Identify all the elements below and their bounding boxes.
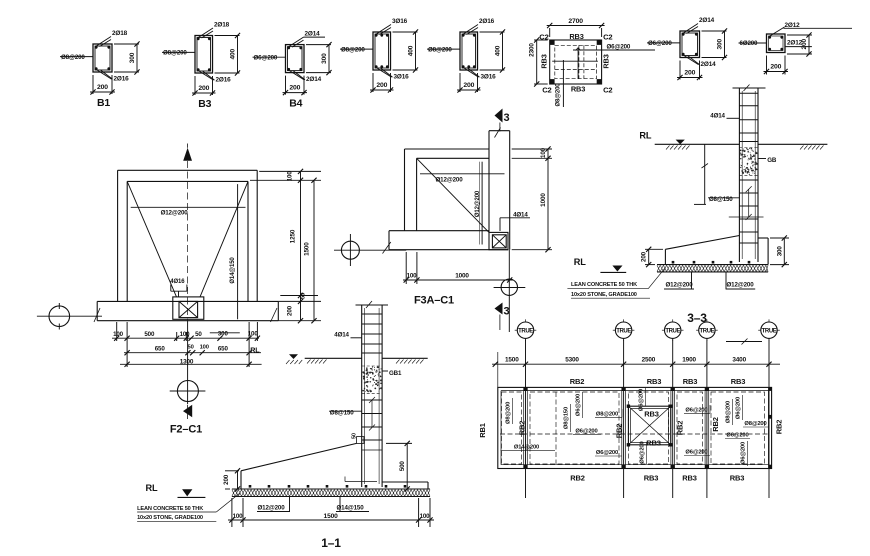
column label C2 bottom-left: [542, 85, 551, 94]
svg-text:Ø8@200: Ø8@200: [61, 54, 85, 61]
svg-text:Ø12@200: Ø12@200: [726, 282, 754, 289]
svg-text:GB: GB: [767, 157, 777, 164]
column strip F3A-C1: [489, 131, 510, 250]
ground hatch left 1-1: [286, 360, 302, 364]
svg-text:300: 300: [717, 38, 724, 49]
slab dashed lower line in C2 plan: [555, 69, 597, 71]
rebar label &#216;12@200 below 1-1 base: [257, 497, 290, 512]
svg-text:2Ø14: 2Ø14: [305, 31, 321, 38]
ground line left 1-1: [305, 357, 362, 359]
grid extension left edge: [497, 352, 499, 387]
svg-text:1900: 1900: [682, 357, 696, 364]
column box F3A-C1: [489, 232, 508, 249]
svg-text:300: 300: [776, 246, 783, 257]
svg-text:Ø12@200: Ø12@200: [257, 505, 285, 512]
svg-text:300: 300: [321, 53, 328, 64]
svg-text:RB2: RB2: [517, 421, 526, 436]
slab label &#216;6@200 bay E-F lower rotated: [741, 441, 748, 466]
beam section B4 outline: [286, 45, 305, 73]
beam label RB3 bottom: [571, 85, 585, 94]
stirrup label &#216;6@200 of B4: [253, 54, 286, 61]
rebar label &#216;8@200 below C2 plan: [556, 60, 564, 107]
slab rebar dashed rect in C2 plan: [555, 45, 597, 78]
svg-text:Ø8@200: Ø8@200: [506, 402, 512, 424]
svg-text:RB3: RB3: [601, 54, 610, 68]
stirrup spacing arrow line 1-1: [369, 397, 375, 431]
beam label RB2 right edge rotated: [775, 420, 784, 435]
rebar label 2&#216;14 bottom of B4: [290, 71, 322, 84]
ground line right 1-1: [382, 357, 428, 359]
beam label RB3 top 1: [647, 377, 662, 386]
stirrup label 6&#216;200 left of 200x200 section: [739, 40, 767, 47]
break tick left on base band: [94, 308, 100, 322]
dimension 400 right of B3: [215, 33, 241, 76]
level marker RL 1-1 ground: [289, 354, 298, 359]
section arrow top F2-C1: [183, 144, 192, 161]
footing F2-C1 inner outline: [127, 181, 248, 301]
extended stirrup line 3-3: [729, 216, 764, 218]
grid bubble below F3A-C1: [494, 250, 526, 332]
svg-text:50: 50: [188, 344, 194, 350]
svg-text:650: 650: [155, 345, 166, 352]
slab label &#216;8@200 bay B-C horizontal: [595, 409, 622, 417]
svg-text:100: 100: [200, 344, 209, 350]
svg-text:1500: 1500: [304, 242, 311, 256]
lean concrete note 3-3: [567, 268, 664, 298]
plan outer beams double lines: [498, 387, 772, 468]
svg-text:6Ø200: 6Ø200: [740, 40, 759, 47]
svg-text:RB2: RB2: [775, 420, 784, 435]
beam label RB3 in pit bottom: [646, 439, 661, 448]
svg-text:5300: 5300: [565, 357, 579, 364]
svg-text:Ø14@200: Ø14@200: [514, 444, 539, 450]
svg-text:RB2: RB2: [711, 417, 720, 432]
footing F2-C1 outer outline: [118, 170, 258, 301]
svg-text:100: 100: [180, 331, 191, 338]
slab rebar dashed rect bay C-D: [629, 392, 669, 464]
svg-text:RB3: RB3: [644, 410, 659, 419]
rebar label 4&#216;14 in 1-1: [334, 332, 361, 339]
beam label RB3 in pit top: [644, 410, 659, 419]
ground hatch right 3-3: [800, 146, 824, 150]
svg-text:GB1: GB1: [389, 370, 402, 377]
svg-text:3: 3: [504, 306, 510, 318]
svg-text:TRUE: TRUE: [665, 329, 680, 335]
svg-text:400: 400: [495, 45, 502, 56]
svg-text:RB1: RB1: [478, 423, 487, 438]
beam label RB2 grid D rotated: [676, 421, 685, 436]
svg-text:Ø6@200: Ø6@200: [726, 433, 748, 439]
section 3-3 column outline: [733, 88, 766, 262]
svg-text:C2: C2: [603, 33, 612, 42]
svg-text:Ø6@200: Ø6@200: [736, 397, 742, 419]
svg-text:200: 200: [223, 474, 230, 485]
rebar label 4&#216;16 in F2-C1: [170, 279, 187, 297]
slab label &#216;6@200 bay D-E lower: [684, 450, 710, 456]
svg-text:RB3: RB3: [644, 473, 659, 482]
rebar label &#216;6@200 right of C2 plan: [573, 44, 655, 51]
svg-text:Ø6@200: Ø6@200: [576, 394, 582, 416]
beam label RB3 bottom 3: [730, 473, 745, 482]
slab rebar dashed rect bay A-B: [502, 392, 522, 464]
svg-text:F2–C1: F2–C1: [170, 424, 202, 436]
svg-text:C2: C2: [542, 85, 551, 94]
dimension 300 right of S6: [702, 28, 728, 60]
step 50 at top of footing slope 1-1: [352, 433, 364, 443]
svg-text:4Ø16: 4Ø16: [170, 279, 185, 285]
slab rebar dashed vertical bay B-C: [555, 392, 557, 464]
ground hatch mid 1-1: [307, 360, 327, 364]
beam section S6 outline: [680, 31, 700, 58]
level label RL 3-3 ground: [639, 131, 651, 141]
svg-text:200: 200: [801, 38, 808, 49]
svg-text:100: 100: [407, 273, 418, 280]
grid bubble below F2-C1: [170, 321, 206, 404]
rebar label 2&#216;14 bottom of S6: [684, 56, 716, 69]
svg-text:RB2: RB2: [570, 473, 585, 482]
dimension 200 below S6: [677, 61, 703, 81]
footing F3A-C1 outer corner outline: [405, 149, 490, 231]
section name B1: [97, 97, 110, 109]
rebar label &#216;12@200 in F3A-C1: [420, 174, 505, 184]
rebar label 2&#216;14 top of B4: [288, 31, 325, 48]
beam section S4 outline: [373, 32, 391, 70]
beam label RB3 bottom 1: [644, 473, 659, 482]
slab label &#216;14@200 bay A-B: [501, 444, 556, 450]
section arrow bottom F2-C1: [183, 405, 192, 419]
column label C2 top-left: [539, 33, 548, 42]
svg-text:RB3: RB3: [682, 473, 697, 482]
rebar label &#216;12@200 in F2-C1: [131, 207, 246, 216]
svg-text:200: 200: [287, 305, 294, 316]
svg-text:400: 400: [408, 45, 415, 56]
svg-text:Ø6@200: Ø6@200: [596, 450, 618, 456]
svg-text:2Ø14: 2Ø14: [699, 17, 715, 24]
dimension 200 left of 1-1 footing: [223, 468, 240, 491]
ground beam GB1 speckle zone 1-1: [362, 366, 382, 393]
svg-text:Ø8@200: Ø8@200: [341, 46, 365, 53]
column label C2 bottom-right: [603, 85, 612, 94]
footing base rebar dots 3-3: [672, 261, 751, 264]
svg-text:TRUE: TRUE: [616, 329, 631, 335]
svg-text:Ø12@200: Ø12@200: [665, 282, 693, 289]
svg-text:Ø6@200: Ø6@200: [575, 428, 597, 434]
svg-text:Ø8@150: Ø8@150: [709, 196, 733, 203]
dimension 200 below B1: [90, 75, 115, 95]
svg-text:Ø12@200: Ø12@200: [475, 190, 481, 217]
beam section S5 outline: [460, 32, 478, 70]
rebar label &#216;8@150 in 3-3: [708, 196, 739, 203]
lean concrete strip 1-1: [232, 490, 430, 497]
level marker triangle 3-3 ground: [676, 140, 685, 145]
svg-text:TRUE: TRUE: [762, 329, 777, 335]
svg-text:100: 100: [287, 171, 294, 182]
level label RL: [250, 346, 260, 355]
dimension 200 below S5: [457, 73, 481, 93]
svg-text:3Ø16: 3Ø16: [481, 74, 497, 81]
svg-text:C2: C2: [603, 85, 612, 94]
footing base 1-1: [232, 488, 430, 490]
ground hatch left 3-3: [666, 146, 690, 150]
footing F3A-C1 inner outline: [417, 158, 489, 230]
svg-text:200: 200: [198, 85, 209, 92]
svg-text:4Ø14: 4Ø14: [334, 332, 349, 339]
footing slope 3-3: [665, 236, 739, 250]
section name B3: [198, 98, 211, 110]
svg-text:200: 200: [289, 85, 300, 92]
svg-text:RB3: RB3: [646, 439, 661, 448]
rebar label 4&#216;14 in F3A-C1: [500, 211, 530, 231]
svg-text:Ø6@200: Ø6@200: [648, 40, 672, 47]
svg-text:100: 100: [113, 331, 124, 338]
svg-text:50: 50: [352, 433, 358, 439]
section marker 3 bottom of F3A-C1: [495, 303, 510, 331]
beam label RB3 top: [569, 32, 583, 41]
interior beams at grids double lines: [524, 387, 709, 468]
dimension 300 right of 3-3 footing: [770, 235, 789, 267]
svg-text:3400: 3400: [732, 357, 746, 364]
column C2 corner fills: [550, 40, 601, 83]
svg-text:TRUE: TRUE: [700, 329, 715, 335]
beam section 200x200 outline: [767, 34, 786, 53]
svg-text:200: 200: [684, 70, 695, 77]
svg-text:LEAN CONCRETE 50 THK: LEAN CONCRETE 50 THK: [137, 506, 203, 512]
slab rebar dashed centerlines in C2 plan: [579, 45, 584, 78]
svg-text:1500: 1500: [324, 513, 339, 520]
rebar label &#216;14@150 below 1-1 base: [336, 497, 369, 512]
svg-text:Ø6@200: Ø6@200: [685, 450, 707, 456]
svg-text:500: 500: [399, 461, 406, 472]
slab label &#216;6@200 bay E-F mid: [725, 433, 750, 439]
dimension 100 1500 100 below 1-1: [228, 498, 434, 527]
svg-text:1250: 1250: [290, 229, 297, 243]
svg-text:C2: C2: [539, 33, 548, 42]
rebar label 2&#216;16 bottom of B3: [199, 71, 231, 84]
dimension 2300 left of C2 plan: [528, 37, 547, 86]
dimension 200 below S4: [370, 73, 394, 93]
svg-text:RB2: RB2: [614, 424, 623, 439]
slab label &#216;6@200 pit bottom rotated: [640, 441, 647, 464]
svg-text:1300: 1300: [180, 358, 194, 365]
footing slope 1-1: [241, 443, 357, 470]
break tick on F3A base band: [383, 242, 391, 254]
dimension 2700 above C2 plan: [547, 18, 605, 37]
svg-text:3: 3: [504, 112, 510, 124]
svg-text:Ø6@200: Ø6@200: [741, 442, 747, 464]
label GB1: [382, 370, 402, 377]
title F3A-C1: [414, 295, 454, 307]
dimension 1300 below F2-C1: [120, 358, 262, 367]
stirrup label &#216;8@200 of B3: [162, 50, 195, 57]
rebar label 2&#216;12 top of 200x200 section: [769, 22, 852, 37]
ground beam GB speckle zone 3-3: [739, 148, 758, 176]
beam label RB2 grid E rotated: [711, 417, 720, 432]
ground line left 3-3: [655, 143, 740, 145]
dimension stack right of F3A-C1 (100 1000): [512, 146, 552, 252]
stirrups 3-3 column upper: [739, 93, 758, 141]
stirrup spacing arrow line 3-3: [746, 186, 752, 220]
svg-text:10x20 STONE, GRADE100: 10x20 STONE, GRADE100: [137, 515, 203, 521]
lean concrete note 1-1: [137, 493, 240, 521]
grid bubbles row: [515, 319, 780, 341]
svg-text:300: 300: [218, 331, 229, 338]
svg-text:100: 100: [420, 513, 431, 520]
svg-text:B1: B1: [97, 97, 110, 109]
centerline dashed vertical F2-C1: [187, 161, 189, 321]
C2 plan outline with RB3 beams: [550, 40, 602, 84]
level marker RL 1-1 base: [146, 483, 206, 498]
slab rebar dashed mid line: [500, 433, 768, 435]
beam label RB1 left rotated: [478, 423, 487, 438]
svg-text:Ø8@150: Ø8@150: [564, 407, 570, 429]
svg-text:Ø8@200: Ø8@200: [163, 50, 187, 57]
svg-text:RB2: RB2: [570, 377, 585, 386]
svg-text:3Ø16: 3Ø16: [394, 74, 410, 81]
dimension stack right of F2-C1 (100 1250 50 200): [250, 169, 321, 323]
dimension 200 below B3: [192, 76, 216, 96]
column fills at grid intersections: [524, 387, 772, 468]
svg-text:4Ø14: 4Ø14: [710, 113, 725, 120]
rebar leader &#216;14@150 vertical in F2-C1: [230, 184, 238, 319]
svg-text:Ø8@200: Ø8@200: [556, 83, 562, 107]
bent bar hook 1-1: [345, 477, 377, 482]
dimension 200 left of 3-3 footing: [641, 247, 663, 268]
svg-text:Ø12@200: Ø12@200: [161, 209, 189, 216]
svg-text:Ø14@150: Ø14@150: [230, 257, 236, 284]
depth bracket left of 3-3 column: [694, 144, 708, 204]
svg-text:200: 200: [376, 82, 387, 89]
stirrups 3-3 column lower: [739, 180, 758, 243]
stirrup label &#216;8@200 of S5: [427, 46, 460, 53]
svg-text:Ø6@200: Ø6@200: [607, 44, 631, 51]
dimension 500 right of 1-1 footing: [386, 441, 430, 492]
svg-text:200: 200: [770, 64, 781, 71]
stirrup label &#216;8@200 of S4: [340, 46, 373, 53]
slab label &#216;6@200 bay B-C mid: [573, 428, 601, 434]
section marker 3 top of F3A-C1: [495, 109, 510, 132]
svg-text:Ø12@200: Ø12@200: [436, 177, 464, 184]
svg-text:2Ø16: 2Ø16: [216, 77, 232, 84]
stirrups 1-1 column upper: [362, 314, 382, 353]
svg-text:Ø6@200: Ø6@200: [685, 407, 707, 413]
svg-text:RB3: RB3: [571, 85, 585, 94]
beam label RB2 top: [570, 377, 585, 386]
dimension 400 right of S4: [393, 29, 419, 72]
svg-text:2300: 2300: [528, 43, 535, 57]
beam label RB3 top 2: [683, 377, 698, 386]
break tick on 3-3 column top: [744, 85, 750, 92]
level marker RL 3-3 base: [574, 257, 626, 272]
beam label RB3 left rotated: [540, 54, 549, 68]
svg-text:RB3: RB3: [730, 473, 745, 482]
svg-text:Ø8@200: Ø8@200: [428, 46, 452, 53]
column box F2-C1: [173, 297, 204, 319]
svg-text:100: 100: [540, 147, 547, 158]
rebar label 2&#216;12 right of 200x200 section: [785, 40, 812, 47]
section 1-1 column outline: [356, 305, 389, 487]
dimension 300 right of B4: [306, 42, 332, 75]
svg-text:Ø6@200: Ø6@200: [639, 389, 645, 411]
beam label RB2 bottom: [570, 473, 585, 482]
stirrups 1-1 column lower: [362, 400, 382, 450]
svg-text:RL: RL: [574, 257, 586, 267]
svg-text:1–1: 1–1: [321, 536, 341, 550]
title 3-3: [687, 311, 707, 325]
pit panel with cross bracing RB3: [627, 405, 673, 447]
svg-text:RB3: RB3: [569, 32, 583, 41]
svg-text:50: 50: [195, 331, 202, 338]
svg-text:Ø6@200: Ø6@200: [254, 54, 278, 61]
beam label RB3 bottom 2: [682, 473, 697, 482]
column label C2 top-right: [603, 33, 612, 42]
svg-text:200: 200: [641, 251, 648, 262]
dimension 200 right of 200x200 section: [787, 32, 812, 56]
svg-text:100: 100: [248, 331, 259, 338]
beam label RB2 grid B rotated: [517, 421, 526, 436]
stirrup label &#216;8@200 of B1: [60, 54, 93, 61]
rebar label 3&#216;16 bottom of S4: [377, 68, 409, 81]
rebar label 3&#216;16 bottom of S5: [464, 68, 496, 81]
svg-text:RB3: RB3: [731, 377, 746, 386]
svg-text:B4: B4: [289, 98, 302, 110]
ground line right 3-3: [758, 143, 827, 145]
break tick on column strip top: [495, 128, 501, 138]
svg-text:RL: RL: [639, 131, 651, 141]
solid mid line in C2 plan: [552, 60, 598, 62]
footing right return 1-1: [382, 482, 428, 489]
title F2-C1: [170, 424, 202, 436]
rebar label 2&#216;16 top of S5: [463, 18, 495, 35]
footing F2-C1 slope lines: [127, 181, 248, 297]
dimension 200 below 200x200 section: [764, 56, 789, 75]
slab rebar dashed rect bay D-E: [677, 392, 703, 464]
svg-text:400: 400: [230, 48, 237, 59]
svg-text:2Ø14: 2Ø14: [306, 76, 322, 83]
beam section B3 outline: [195, 36, 213, 74]
svg-text:RB3: RB3: [540, 54, 549, 68]
rebar label 2&#216;18 top of B1: [96, 30, 128, 47]
svg-text:10x20 STONE, GRADE100: 10x20 STONE, GRADE100: [571, 292, 637, 298]
svg-text:650: 650: [218, 345, 229, 352]
svg-text:2Ø16: 2Ø16: [479, 18, 495, 25]
svg-text:1000: 1000: [455, 273, 469, 280]
rebar leader vertical in C2 plan: [576, 48, 581, 79]
slab label &#216;8@200 bay E-F horizontal: [743, 421, 768, 427]
dimension 300 right of B1: [114, 41, 140, 74]
slab rebar dashed rect bay E-F: [711, 392, 765, 464]
stirrup label &#216;6@200 of S6: [647, 40, 680, 47]
rebar label 4&#216;14 in 3-3: [710, 113, 739, 120]
dimension row 1500 5300 2500 1900 3400: [492, 357, 780, 367]
section name B4: [289, 98, 302, 110]
ground hatch right 1-1: [396, 360, 424, 364]
svg-text:2Ø16: 2Ø16: [114, 76, 130, 83]
svg-text:2Ø18: 2Ø18: [214, 22, 230, 29]
svg-text:RL: RL: [250, 346, 260, 355]
rebar label 2&#216;14 top of S6: [683, 17, 715, 34]
svg-text:100: 100: [233, 513, 244, 520]
footing base 3-3: [657, 264, 768, 266]
svg-text:1500: 1500: [505, 357, 519, 364]
dimension row 100 500 100 50 300 100 below F2-C1: [112, 322, 260, 367]
svg-text:RL: RL: [146, 483, 158, 493]
break tick on 1-1 column top: [366, 301, 372, 308]
svg-text:Ø8@200: Ø8@200: [744, 421, 766, 427]
slab label &#216;8@200 bay A-B rotated: [506, 398, 513, 424]
svg-text:200: 200: [97, 84, 108, 91]
svg-text:Ø8@200: Ø8@200: [596, 411, 618, 417]
rebar label 2&#216;18 top of B3: [198, 22, 230, 39]
